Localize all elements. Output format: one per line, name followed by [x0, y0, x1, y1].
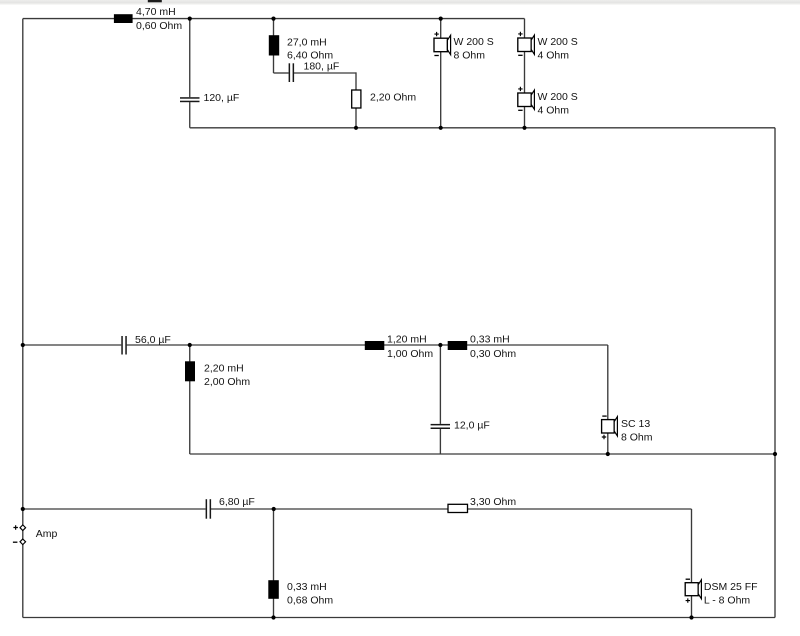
wire 2.20 Ohm resistor branch: [355, 72, 357, 127]
wire bottom return y=617.5: [23, 617, 775, 619]
wire 120uF branch lower: [189, 102, 191, 128]
svg-text:180, µF: 180, µF: [304, 61, 340, 73]
node top return / W200S-4 branch: [522, 126, 526, 130]
wire between amp terminals: [22, 530, 24, 539]
svg-text:0,33 mH: 0,33 mH: [287, 581, 327, 593]
svg-text:120, µF: 120, µF: [204, 92, 240, 104]
node top wire / 27mH branch: [271, 17, 275, 21]
svg-text:SC 13: SC 13: [621, 418, 650, 430]
speaker U4 SC 13: [602, 416, 618, 439]
node top return / resistor branch: [354, 126, 358, 130]
svg-text:L - 8 Ohm: L - 8 Ohm: [704, 594, 751, 606]
resistor R2 3,30 Ohm: [448, 504, 468, 512]
svg-text:Amp: Amp: [36, 528, 58, 540]
svg-text:0,68 Ohm: 0,68 Ohm: [287, 594, 333, 606]
capacitor C 120uF: [180, 97, 200, 102]
speaker U5 DSM 25 FF: [685, 579, 701, 603]
svg-text:0,30 Ohm: 0,30 Ohm: [470, 348, 516, 360]
capacitor C 6,80uF: [206, 499, 212, 519]
svg-text:2,20 Ohm: 2,20 Ohm: [370, 92, 416, 104]
inductor L1 4,70 mH: [114, 14, 133, 23]
wire 0.33mH branch vertical: [273, 509, 275, 618]
node bottom return / 0.33mH branch: [271, 615, 275, 619]
speaker U2 W 200 S 4 Ohm upper: [518, 32, 535, 56]
svg-text:W 200 S: W 200 S: [454, 36, 494, 48]
node bottom wire / left vertical: [21, 507, 25, 511]
amp minus sign: [13, 541, 18, 543]
amp minus terminal: [20, 539, 26, 545]
wire SC13 branch vertical: [607, 345, 609, 454]
node mid wire / 2.20mH branch: [188, 343, 192, 347]
wire top horizontal y=18.6: [23, 18, 525, 20]
amp plus terminal: [20, 525, 26, 531]
toolbar remnant black mark: [148, 0, 162, 2]
inductor L3 2,20 mH: [185, 361, 195, 381]
wire 180uF left segment: [274, 72, 289, 74]
svg-text:4,70 mH: 4,70 mH: [136, 6, 176, 18]
wire 120uF branch upper: [189, 19, 191, 98]
capacitor C 56uF: [121, 336, 127, 355]
node mid return / SC13 branch: [606, 452, 610, 456]
node top wire / W200S-8 branch: [439, 17, 443, 21]
speaker U3 W 200 S 4 Ohm lower: [518, 87, 535, 111]
wire 12uF branch lower: [439, 429, 441, 454]
svg-text:8 Ohm: 8 Ohm: [454, 50, 486, 62]
wire DSM branch vertical: [691, 509, 693, 618]
svg-text:1,00 Ohm: 1,00 Ohm: [387, 348, 433, 360]
inductor L6 0,33 mH: [268, 580, 279, 599]
capacitor C 180uF: [289, 63, 295, 82]
node mid return / right vertical: [773, 452, 777, 456]
wire bottom horizontal right of 6.80uF: [211, 508, 692, 510]
wire top section bottom return y=127.8: [190, 127, 775, 129]
wire mid horizontal right of 56uF: [127, 344, 608, 346]
svg-text:8 Ohm: 8 Ohm: [621, 431, 653, 443]
wire amp minus lead down: [22, 545, 24, 618]
resistor R1 2,20 Ohm: [352, 90, 361, 108]
inductor L2 27,0 mH: [269, 35, 279, 55]
svg-text:4 Ohm: 4 Ohm: [538, 104, 570, 116]
wire 2.20mH branch vertical: [189, 345, 191, 454]
svg-text:0,60 Ohm: 0,60 Ohm: [136, 20, 182, 32]
svg-text:2,00 Ohm: 2,00 Ohm: [204, 376, 250, 388]
wire mid horizontal left of 56uF: [23, 344, 122, 346]
svg-text:DSM 25 FF: DSM 25 FF: [704, 581, 758, 593]
svg-text:27,0 mH: 27,0 mH: [287, 36, 327, 48]
amp plus sign: [13, 525, 18, 530]
svg-text:3,30 Ohm: 3,30 Ohm: [470, 496, 516, 508]
node mid wire / 12uF branch: [438, 343, 442, 347]
wire left vertical x=22.8: [22, 19, 24, 509]
inductor L5 0,33 mH: [448, 341, 468, 350]
svg-text:56,0 µF: 56,0 µF: [135, 334, 171, 346]
node top return / W200S-8 branch: [439, 126, 443, 130]
wire 12uF branch upper: [439, 345, 441, 424]
svg-text:6,40 Ohm: 6,40 Ohm: [287, 49, 333, 61]
wire W200S 8 Ohm branch: [440, 19, 442, 128]
svg-text:4 Ohm: 4 Ohm: [538, 49, 570, 61]
inductor L4 1,20 mH: [365, 341, 385, 350]
svg-text:6,80 µF: 6,80 µF: [219, 496, 255, 508]
node bottom return / DSM branch: [689, 615, 693, 619]
wire W200S 4 Ohm series branch: [524, 19, 526, 128]
svg-text:0,33 mH: 0,33 mH: [470, 334, 510, 346]
toolbar remnant strip: [0, 0, 800, 5]
node bottom wire / 0.33mH branch: [272, 507, 276, 511]
wire 27mH branch vertical: [273, 19, 275, 73]
svg-text:W 200 S: W 200 S: [538, 36, 578, 48]
wire bottom horizontal left of 6.80uF: [23, 508, 206, 510]
speaker U1 W 200 S 8 Ohm: [434, 32, 451, 56]
svg-text:1,20 mH: 1,20 mH: [387, 334, 427, 346]
wire right vertical return x=775: [774, 128, 776, 618]
capacitor C 12uF: [431, 424, 450, 429]
wire amp plus lead: [22, 509, 24, 525]
node top wire / 120uF branch: [188, 17, 192, 21]
svg-text:W 200 S: W 200 S: [538, 91, 578, 103]
svg-text:2,20 mH: 2,20 mH: [204, 363, 244, 375]
wire 180uF right segment: [294, 72, 357, 74]
svg-text:12,0 µF: 12,0 µF: [454, 420, 490, 432]
node mid wire / left vertical: [21, 343, 25, 347]
wire mid section bottom return y=454: [190, 453, 775, 455]
